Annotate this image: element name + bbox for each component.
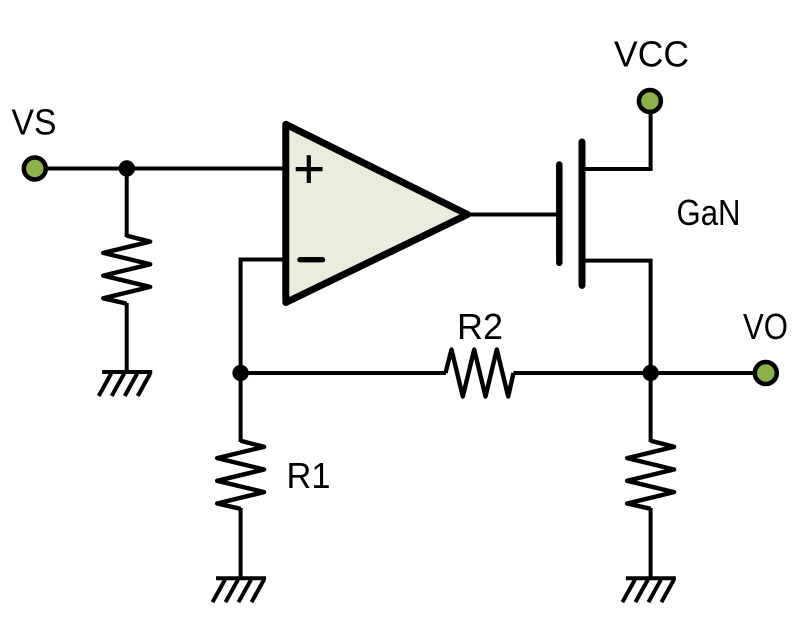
terminal VS: [24, 158, 46, 180]
junction node VO: [642, 365, 658, 381]
resistor R3 (load): [627, 441, 674, 509]
svg-text:VCC: VCC: [614, 33, 689, 74]
wire op-amp output to gate: [465, 213, 557, 217]
wire node B down to R1: [239, 373, 243, 442]
resistor R2: [446, 350, 514, 397]
terminal VO: [755, 362, 777, 384]
wire divider resistor to ground: [125, 303, 129, 372]
resistor VS divider: [103, 236, 150, 304]
wire feedback left segment: [241, 371, 446, 375]
wire VS to op-amp noninverting input: [46, 167, 290, 171]
terminal VCC: [639, 90, 661, 112]
resistor R1: [217, 441, 264, 509]
wire node A down to divider resistor: [125, 169, 129, 238]
wire node VO down to load resistor: [649, 373, 653, 442]
svg-text:R1: R1: [287, 455, 331, 496]
ground G3: [622, 578, 676, 602]
wire source to output node: [582, 261, 651, 375]
transistor Q1 channel bar: [579, 142, 586, 285]
svg-text:R2: R2: [457, 306, 503, 347]
transistor Q1 gate bar: [556, 165, 563, 263]
wire R1 to ground: [239, 508, 243, 578]
wire op-amp inverting input (feedback tap): [241, 260, 288, 376]
svg-text:VO: VO: [743, 306, 788, 347]
op-amp U1: [286, 124, 468, 302]
junction node A (VS divider tap): [119, 160, 135, 176]
wire drain to VCC: [582, 112, 651, 169]
junction node B (feedback/R1): [232, 365, 248, 381]
svg-text:GaN: GaN: [677, 192, 741, 233]
ground G2: [213, 578, 267, 602]
wire load resistor to ground: [649, 508, 653, 578]
ground G1: [99, 372, 153, 396]
svg-text:VS: VS: [12, 102, 57, 143]
wire feedback right segment: [514, 371, 754, 375]
